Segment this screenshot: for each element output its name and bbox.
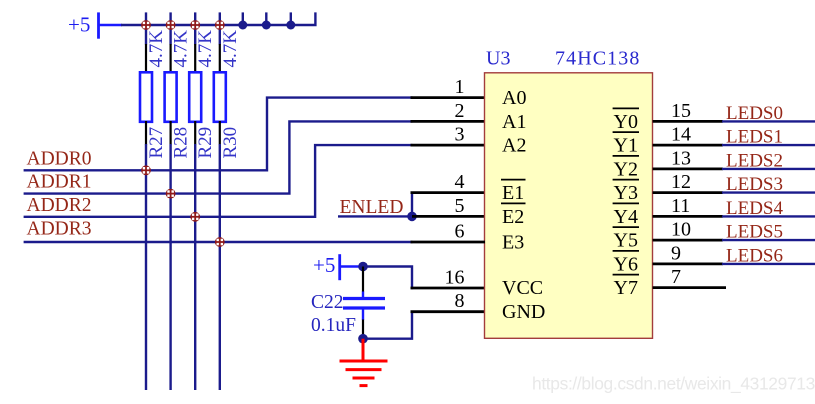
wire ADDR1 bbox=[24, 121, 413, 193]
wire LEDS0 bbox=[722, 120, 815, 122]
svg-text:Y4: Y4 bbox=[614, 206, 638, 228]
junction rail-R27 bbox=[141, 20, 151, 30]
pin label Y6 bbox=[613, 251, 639, 276]
pin label E1 bbox=[501, 180, 526, 205]
svg-text:ADDR1: ADDR1 bbox=[27, 172, 92, 193]
wire LEDS6 bbox=[722, 263, 815, 265]
svg-text:R28: R28 bbox=[171, 127, 192, 159]
junction dot rail 1 bbox=[238, 21, 247, 30]
junction dot ENLED bbox=[407, 212, 417, 222]
pin label Y0 bbox=[613, 108, 639, 132]
svg-text:2: 2 bbox=[455, 100, 465, 122]
svg-text:16: 16 bbox=[445, 267, 465, 289]
power bar symbol (+5 C22) bbox=[338, 254, 341, 280]
svg-text:7: 7 bbox=[671, 266, 681, 288]
resistor R30 bbox=[214, 12, 226, 390]
wire E1-E2 tie bbox=[411, 193, 413, 218]
wire VCC net bbox=[363, 267, 412, 290]
IC U3 74HC138 body bbox=[485, 73, 653, 339]
svg-text:C22: C22 bbox=[311, 292, 344, 313]
wire LEDS4 bbox=[722, 215, 815, 217]
svg-text:14: 14 bbox=[671, 124, 691, 146]
svg-text:+5: +5 bbox=[313, 253, 335, 277]
svg-text:LEDS1: LEDS1 bbox=[726, 127, 783, 148]
svg-text:A0: A0 bbox=[502, 87, 526, 109]
wire rail stub above dot 3 bbox=[290, 12, 292, 25]
pin 4 wire bbox=[411, 191, 486, 194]
pin label Y4 bbox=[613, 203, 639, 228]
junction ADDR1-R28 bbox=[166, 189, 176, 199]
svg-text:6: 6 bbox=[455, 221, 465, 243]
power bar symbol (top +5) bbox=[97, 12, 100, 38]
resistor R29 bbox=[189, 12, 201, 390]
wire ADDR3 bbox=[24, 241, 413, 243]
junction rail-R29 bbox=[190, 20, 200, 30]
pin label E2 bbox=[501, 203, 526, 228]
svg-text:3: 3 bbox=[455, 124, 465, 146]
pin 14 wire bbox=[653, 144, 723, 147]
junction dot +5/C22 bbox=[358, 262, 368, 272]
junction ADDR3-R30 bbox=[215, 237, 225, 247]
svg-text:Y2: Y2 bbox=[614, 158, 638, 180]
pin 1 wire bbox=[411, 96, 486, 99]
pin 7 wire bbox=[653, 286, 726, 289]
wire LEDS5 bbox=[722, 239, 815, 241]
wire ENLED bbox=[338, 215, 412, 217]
svg-text:R30: R30 bbox=[220, 127, 241, 159]
pin 3 wire bbox=[411, 144, 486, 147]
svg-text:11: 11 bbox=[671, 195, 690, 217]
junction dot C22-GND bbox=[358, 334, 368, 344]
junction rail-R30 bbox=[215, 20, 225, 30]
svg-text:74HC138: 74HC138 bbox=[555, 48, 640, 70]
svg-text:4: 4 bbox=[455, 171, 465, 193]
svg-text:4.7K: 4.7K bbox=[146, 30, 167, 68]
svg-text:Y0: Y0 bbox=[614, 111, 638, 133]
svg-text:Y6: Y6 bbox=[614, 253, 638, 275]
svg-text:8: 8 bbox=[455, 290, 465, 312]
junction dot rail 3 bbox=[286, 21, 295, 30]
svg-text:ADDR0: ADDR0 bbox=[27, 149, 92, 170]
wire rail stub above dot 2 bbox=[265, 12, 267, 25]
wire LEDS3 bbox=[722, 191, 815, 193]
junction dot rail 2 bbox=[262, 21, 271, 30]
wire rail stub above dot 1 bbox=[242, 12, 244, 25]
svg-text:LEDS6: LEDS6 bbox=[726, 245, 783, 266]
svg-text:5: 5 bbox=[455, 195, 465, 217]
svg-text:ENLED: ENLED bbox=[340, 197, 404, 218]
svg-text:VCC: VCC bbox=[502, 277, 543, 299]
junction ADDR2-R29 bbox=[190, 212, 200, 222]
wire ADDR0 bbox=[24, 98, 413, 171]
svg-text:A1: A1 bbox=[502, 111, 526, 133]
wire GND net bbox=[363, 312, 412, 339]
pin 2 wire bbox=[411, 120, 486, 123]
pin 10 wire bbox=[653, 239, 723, 242]
wire +5 to C22 bright segment bbox=[340, 265, 365, 268]
svg-text:LEDS2: LEDS2 bbox=[726, 150, 783, 171]
svg-text:9: 9 bbox=[671, 242, 681, 264]
svg-text:4.7K: 4.7K bbox=[195, 30, 216, 68]
pin 16 wire bbox=[411, 287, 486, 290]
svg-text:10: 10 bbox=[671, 219, 691, 241]
svg-text:LEDS4: LEDS4 bbox=[726, 198, 784, 219]
svg-text:Y3: Y3 bbox=[614, 182, 638, 204]
pin 13 wire bbox=[653, 167, 723, 170]
pin label Y2 bbox=[613, 156, 639, 181]
svg-text:R27: R27 bbox=[146, 127, 167, 159]
svg-text:13: 13 bbox=[671, 147, 691, 169]
svg-text:+5: +5 bbox=[68, 13, 90, 37]
pin label Y7 bbox=[613, 275, 639, 300]
wire LEDS1 bbox=[722, 144, 815, 146]
svg-text:Y1: Y1 bbox=[614, 135, 638, 157]
svg-text:U3: U3 bbox=[486, 48, 510, 70]
wire LEDS2 bbox=[722, 168, 815, 170]
wire ADDR2 bbox=[24, 145, 413, 217]
pin 9 wire bbox=[653, 262, 723, 265]
pin 5 wire bbox=[412, 215, 485, 218]
svg-text:4.7K: 4.7K bbox=[220, 30, 241, 68]
junction ADDR0-R27 bbox=[141, 165, 151, 175]
junction rail-R28 bbox=[166, 20, 176, 30]
pin 12 wire bbox=[653, 191, 723, 194]
svg-text:LEDS3: LEDS3 bbox=[726, 174, 783, 195]
svg-text:Y7: Y7 bbox=[614, 277, 638, 299]
svg-text:E1: E1 bbox=[502, 182, 524, 204]
pin 8 wire bbox=[411, 310, 486, 313]
svg-text:A2: A2 bbox=[502, 135, 526, 157]
svg-text:4.7K: 4.7K bbox=[171, 30, 192, 68]
svg-text:Y5: Y5 bbox=[614, 230, 638, 252]
svg-text:https://blog.csdn.net/weixin_4: https://blog.csdn.net/weixin_43129713 bbox=[532, 374, 815, 394]
resistor R27 bbox=[140, 12, 152, 390]
svg-text:LEDS0: LEDS0 bbox=[726, 103, 783, 124]
wire +5 main rail bbox=[121, 12, 315, 25]
pin 11 wire bbox=[653, 215, 723, 218]
pin 6 wire (E3 from ADDR3) bbox=[411, 241, 486, 244]
svg-text:GND: GND bbox=[502, 301, 545, 323]
svg-text:12: 12 bbox=[671, 171, 691, 193]
svg-text:ADDR3: ADDR3 bbox=[27, 219, 92, 240]
svg-text:LEDS5: LEDS5 bbox=[726, 222, 783, 243]
svg-text:E2: E2 bbox=[502, 206, 524, 228]
pin 15 wire bbox=[653, 120, 723, 123]
svg-text:ADDR2: ADDR2 bbox=[27, 195, 92, 216]
svg-text:0.1uF: 0.1uF bbox=[311, 315, 356, 336]
wire +5 rail bright segment bbox=[98, 24, 122, 27]
capacitor C22 bbox=[343, 267, 385, 339]
svg-text:1: 1 bbox=[455, 76, 465, 98]
pin label Y1 bbox=[613, 132, 639, 157]
pin label Y3 bbox=[613, 180, 639, 205]
ground symbol bbox=[340, 339, 388, 386]
svg-text:E3: E3 bbox=[502, 232, 524, 254]
svg-text:15: 15 bbox=[671, 100, 691, 122]
resistor R28 bbox=[165, 12, 177, 390]
pin label Y5 bbox=[613, 227, 639, 252]
svg-text:R29: R29 bbox=[195, 127, 216, 159]
